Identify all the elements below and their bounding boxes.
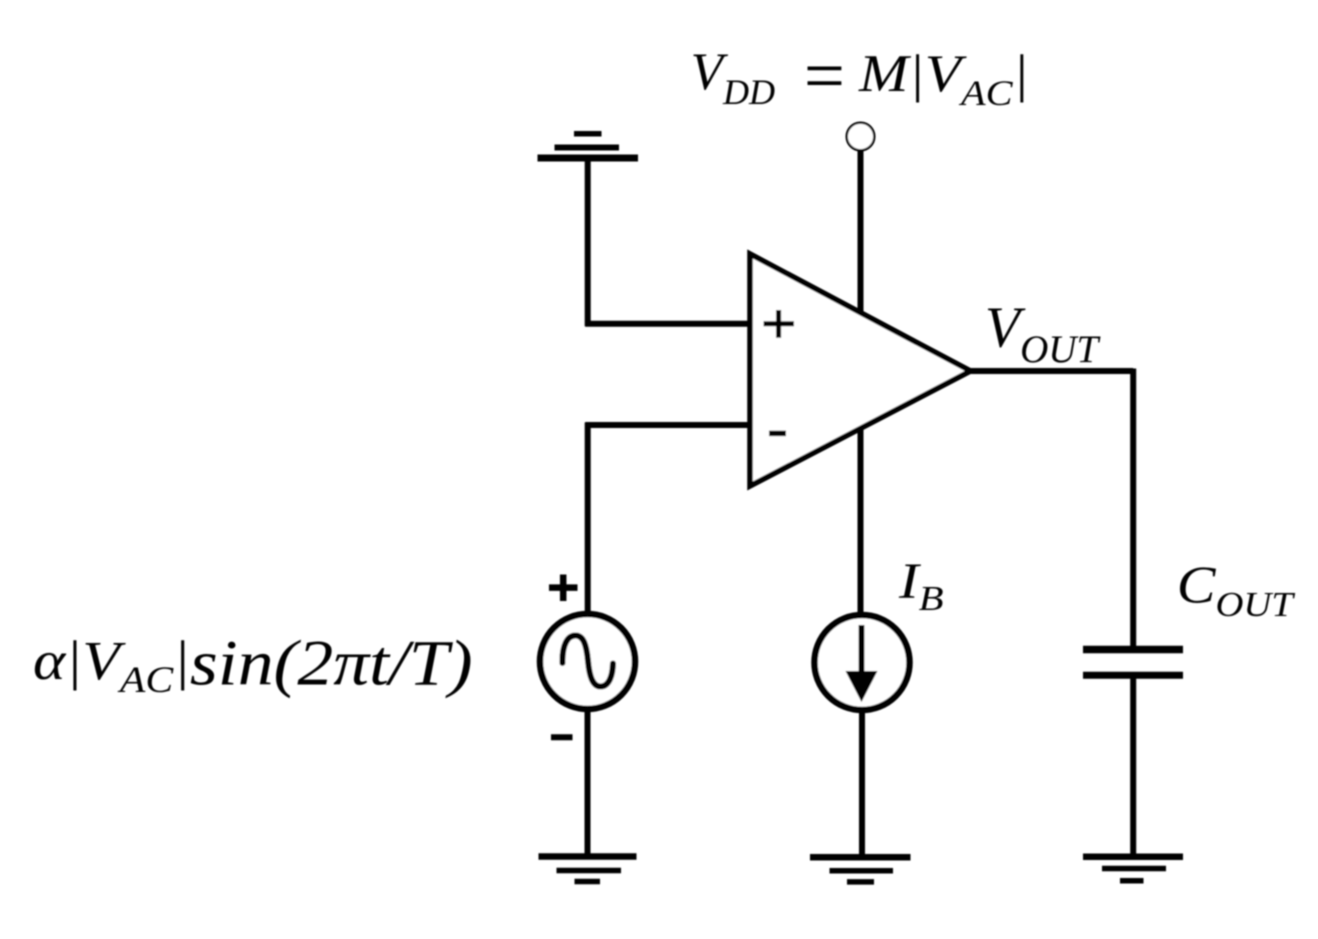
AC source + polarity: [549, 575, 578, 602]
svg-text:=: =: [799, 33, 848, 116]
ground bottom-left: [539, 857, 637, 882]
capacitor COUT: [1083, 650, 1183, 676]
AC source - polarity: [551, 734, 573, 740]
current source IB: [815, 615, 910, 710]
ground middle: [810, 857, 911, 882]
label COUT: [1177, 557, 1296, 625]
wire capacitor to ground: [1130, 678, 1136, 856]
wire output VOUT: [968, 369, 1133, 648]
AC source V1: [540, 614, 635, 709]
wire ground to + input: [585, 160, 753, 326]
op-amp + input marker: [764, 310, 795, 338]
wire IB to ground: [859, 712, 865, 857]
svg-text:sin(2πt/T): sin(2πt/T): [190, 626, 473, 698]
label equals sign: [799, 33, 848, 116]
op-amp - input marker: [769, 431, 786, 437]
label VOUT: [985, 294, 1101, 371]
label sin(2pi t/T): [190, 626, 473, 698]
ground top-left (inverted): [538, 134, 639, 158]
label IB: [898, 553, 944, 618]
wire AC source to ground: [585, 711, 591, 857]
label alpha|VAC|: [33, 630, 190, 700]
label M|VAC|: [858, 45, 1029, 114]
label VDD: [691, 42, 775, 112]
ground right: [1083, 857, 1183, 881]
wire - input to AC source: [585, 423, 753, 614]
op-amp U1: [750, 254, 971, 486]
sine symbol: [562, 636, 613, 687]
wire VDD vertical to IB source: [858, 150, 864, 613]
IB arrow: [859, 625, 865, 674]
node VDD terminal: [847, 123, 875, 151]
